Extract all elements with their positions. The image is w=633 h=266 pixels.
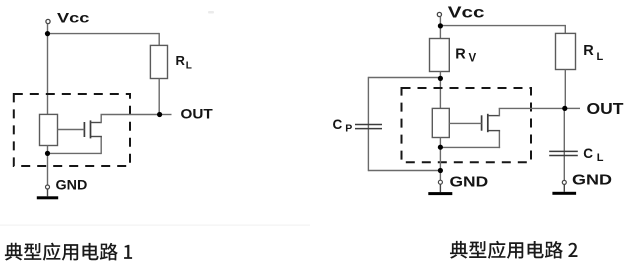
wire MOSFET drain riser to OUT (right) bbox=[498, 108, 500, 116]
transistor Q2 channel bar (right MOSFET) bbox=[487, 114, 489, 132]
node Vcc terminal (left circuit) bbox=[46, 19, 50, 23]
Hall element / sensing resistor (right circuit) bbox=[432, 108, 449, 137]
wire Vcc vertical down to internal element (left) bbox=[47, 24, 49, 114]
caption: 典型应用电路 2 bbox=[450, 241, 577, 259]
transistor Q1 channel bar (left MOSFET) bbox=[90, 120, 92, 138]
Hall element / sensing resistor (left circuit, vertical box) bbox=[40, 114, 58, 145]
svg-text:C: C bbox=[583, 146, 593, 161]
wire MOSFET drain stub (right) bbox=[488, 115, 500, 117]
svg-text:V: V bbox=[469, 53, 477, 65]
ground symbol (right circuit, under box) bbox=[428, 192, 452, 195]
node junction dot below RV (right) bbox=[438, 76, 443, 81]
resistor RV (right circuit) bbox=[430, 39, 450, 72]
wire MOSFET drain riser to OUT (left) bbox=[100, 115, 102, 124]
svg-text:P: P bbox=[345, 123, 352, 135]
wire GND circle to ground bar (right under CL) bbox=[563, 184, 565, 191]
wire MOSFET source drop (right) bbox=[498, 131, 500, 149]
capacitor CP plates bbox=[355, 124, 382, 126]
dashed box: sensor IC boundary (right circuit) bbox=[402, 88, 532, 162]
node junction dot where CP returns (right) bbox=[438, 168, 443, 173]
faint scan artifact smudge top centre bbox=[208, 11, 214, 14]
wire GND circle to ground bar (right under box) bbox=[439, 184, 441, 192]
wire CP upper lead (right) bbox=[367, 77, 369, 171]
wire CP top branch (right) bbox=[368, 77, 440, 79]
svg-text:Vcc: Vcc bbox=[57, 10, 89, 26]
svg-text:R: R bbox=[583, 43, 594, 59]
node junction dot below Hall element (left) bbox=[45, 151, 50, 156]
wire drain to OUT node (right) bbox=[499, 107, 565, 109]
node GND terminal circle (left) bbox=[46, 185, 50, 189]
svg-text:Vcc: Vcc bbox=[448, 3, 485, 21]
wire CP bottom branch to GND node (right) bbox=[368, 170, 440, 172]
node OUT junction dot (left) bbox=[157, 112, 162, 117]
ground symbol (right circuit, under CL) bbox=[552, 192, 576, 195]
wire GND circle to ground bar (left) bbox=[47, 189, 49, 196]
wire MOSFET source stub (left) bbox=[91, 136, 102, 138]
svg-text:R: R bbox=[176, 53, 186, 68]
resistor RL (left circuit) bbox=[150, 45, 167, 78]
wire Vcc vertical to RV (right) bbox=[439, 17, 441, 39]
wire bottom rail: source return to Hall node (left) bbox=[48, 152, 102, 154]
node junction dot at Vcc tee (left) bbox=[45, 31, 50, 36]
wire gate connection from Hall element (left) bbox=[58, 129, 85, 131]
wire top rail from Vcc to RL (left) bbox=[48, 33, 160, 35]
node junction dot below Hall element (right) bbox=[438, 145, 443, 150]
node OUT junction dot (right) bbox=[562, 106, 567, 111]
wire gate connection from Hall element (right) bbox=[449, 122, 481, 124]
node junction dot at Vcc tee (right) bbox=[438, 23, 443, 28]
wire Hall bottom through box to GND (right) bbox=[439, 138, 441, 181]
wire OUT stub (left) bbox=[160, 114, 172, 116]
svg-text:GND: GND bbox=[56, 177, 88, 193]
wire bottom rail source return (right) bbox=[440, 146, 500, 148]
svg-text:OUT: OUT bbox=[587, 100, 624, 118]
wire RL bottom to OUT node (right) bbox=[564, 70, 566, 109]
wire RL top lead (left) bbox=[158, 33, 160, 45]
wire top rail from Vcc to RL (right) bbox=[440, 25, 565, 27]
transistor Q1 gate bar (left MOSFET) bbox=[83, 122, 85, 137]
svg-text:L: L bbox=[186, 60, 192, 71]
wire RL top lead (right) bbox=[564, 25, 566, 34]
svg-text:R: R bbox=[455, 47, 466, 63]
transistor Q2 gate bar (right MOSFET) bbox=[481, 115, 483, 130]
wire MOSFET source stub (right) bbox=[488, 130, 500, 132]
caption: 典型应用电路 1 bbox=[5, 243, 132, 261]
wire OUT stub (right) bbox=[565, 107, 580, 109]
wire drain to OUT node inside box (left) bbox=[101, 114, 160, 116]
capacitor CL plates bbox=[549, 150, 578, 152]
dashed box: sensor IC boundary (left circuit) bbox=[14, 94, 130, 166]
svg-text:L: L bbox=[597, 152, 604, 164]
node GND terminal circle (right circuit, under CL) bbox=[562, 180, 566, 184]
wire Hall element bottom to GND (left) bbox=[47, 146, 49, 186]
wire MOSFET source drop (left) bbox=[100, 137, 102, 155]
svg-text:GND: GND bbox=[572, 171, 612, 188]
wire RV bottom to internal element (right) bbox=[439, 71, 441, 108]
wire OUT node down to CL (right) bbox=[563, 108, 565, 180]
svg-text:OUT: OUT bbox=[181, 107, 213, 122]
ground symbol (left circuit) bbox=[37, 196, 58, 199]
svg-text:GND: GND bbox=[450, 174, 489, 191]
resistor RL (right circuit) bbox=[556, 33, 576, 69]
svg-text:C: C bbox=[333, 117, 343, 132]
node Vcc terminal (right circuit) bbox=[437, 12, 441, 16]
wire RL bottom lead to OUT node (left) bbox=[158, 79, 160, 115]
wire MOSFET drain stub (left) bbox=[91, 122, 102, 124]
svg-text:L: L bbox=[597, 51, 604, 63]
node GND terminal circle (right circuit, under box) bbox=[438, 180, 442, 184]
faint divider line above captions bbox=[0, 225, 310, 226]
